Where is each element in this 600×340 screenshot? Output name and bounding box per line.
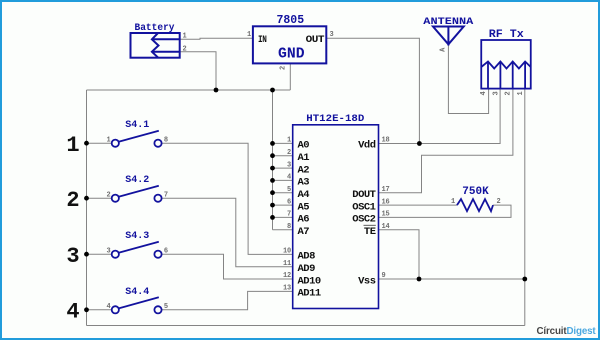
junction: Vdd node [417, 141, 422, 146]
pin name OSC2 [352, 214, 375, 226]
wire: Vdd pin18 to RF Tx pin 3 [379, 89, 501, 144]
svg-text:Battery: Battery [135, 23, 175, 34]
regulator U2 7805 box [253, 26, 326, 63]
wire: RF Tx pin 1 down to bottom ground rail [524, 89, 526, 326]
svg-text:TE: TE [364, 226, 376, 238]
svg-text:A6: A6 [298, 214, 310, 226]
svg-text:5: 5 [164, 303, 168, 311]
svg-text:AD8: AD8 [298, 251, 316, 263]
svg-text:14: 14 [382, 223, 390, 231]
junction: bus at A5 [270, 203, 275, 208]
svg-text:9: 9 [382, 272, 386, 280]
pin name AD10 [298, 275, 321, 287]
svg-text:IN: IN [258, 34, 267, 46]
RF Tx pin 4 number [480, 91, 488, 95]
antenna pin A label [440, 47, 448, 52]
svg-text:8: 8 [287, 223, 291, 231]
RF Tx label [489, 29, 524, 41]
svg-text:7805: 7805 [276, 14, 304, 27]
svg-text:6: 6 [164, 247, 168, 255]
svg-text:3: 3 [287, 161, 291, 169]
svg-text:1: 1 [106, 136, 110, 144]
svg-text:A0: A0 [298, 140, 310, 152]
switch S4.1 [112, 131, 162, 147]
wire: resistor pin 2 to OSC2 pin15 [379, 205, 512, 217]
svg-text:A5: A5 [298, 201, 310, 213]
svg-text:4: 4 [287, 174, 291, 182]
switch S4.4 label [125, 287, 149, 298]
pin name AD8 [298, 251, 316, 263]
svg-text:A1: A1 [298, 152, 310, 164]
pin name A3 [298, 177, 310, 189]
S4.3 pin 6 number [164, 247, 168, 255]
wire: S4.3 to AD10 pin12 [162, 254, 293, 279]
resistor pin 2 number [497, 198, 501, 206]
antenna label [423, 16, 474, 28]
battery label [135, 23, 175, 34]
switch S4.3 label [125, 231, 149, 242]
IC pin 7 number [287, 211, 291, 219]
pin name OSC1 [352, 201, 375, 213]
junction: left rail S4.4 [84, 307, 89, 312]
junction: TE to Vss line [417, 277, 422, 282]
pin name A7 [298, 226, 310, 238]
svg-text:GND: GND [278, 46, 305, 62]
svg-text:DOUT: DOUT [352, 189, 375, 201]
switch S4.2 label [125, 175, 149, 186]
wire: OSC1 pin16 to resistor pin 1 [379, 204, 458, 206]
svg-text:HT12E-18D: HT12E-18D [306, 113, 364, 125]
svg-text:750K: 750K [462, 186, 489, 198]
svg-text:S4.2: S4.2 [125, 175, 149, 186]
svg-text:S4.3: S4.3 [125, 231, 149, 242]
IC pin 15 number [382, 211, 390, 219]
svg-text:OSC1: OSC1 [352, 201, 375, 213]
svg-text:A2: A2 [298, 164, 310, 176]
svg-text:7: 7 [287, 211, 291, 219]
svg-text:17: 17 [382, 186, 390, 194]
svg-text:2: 2 [280, 66, 288, 70]
svg-text:8: 8 [164, 136, 168, 144]
wire: main ground horizontal y=90 [87, 89, 291, 91]
svg-text:A3: A3 [298, 177, 310, 189]
IC pin 16 number [382, 198, 390, 206]
IC pin 1 number [287, 137, 291, 145]
HT12E-18D label [306, 113, 364, 125]
resistor pin 1 number [451, 198, 455, 206]
node number 3 [66, 244, 79, 269]
IC pin 2 number [287, 149, 291, 157]
svg-text:11: 11 [283, 260, 291, 268]
svg-text:12: 12 [283, 272, 291, 280]
junction: bus at A2 [270, 166, 275, 171]
junction: bus at A0 [270, 141, 275, 146]
wire: Vss pin9 to RF Tx pin1 vertical [379, 278, 525, 280]
antenna ANT1 symbol [433, 27, 464, 46]
IC pin 14 number [382, 223, 390, 231]
svg-text:S4.1: S4.1 [125, 120, 149, 131]
junction: ground line to address bus [270, 88, 275, 93]
pin name Vss [358, 275, 376, 287]
7805 GND pin name [278, 46, 305, 62]
junction: left rail S4.3 [84, 252, 89, 257]
node number 1 [66, 133, 79, 158]
svg-text:OSC2: OSC2 [352, 214, 375, 226]
wire: S4.1 to AD8 pin10 [162, 143, 293, 254]
RF Tx pin 2 number [505, 91, 513, 95]
svg-text:1: 1 [451, 198, 455, 206]
junction: Vss line to RF pin1 vertical [522, 277, 527, 282]
7805 pin 2 number [280, 66, 288, 70]
svg-text:3: 3 [106, 247, 110, 255]
svg-text:18: 18 [382, 137, 390, 145]
svg-text:2: 2 [66, 188, 79, 213]
IC pin 13 number [283, 285, 291, 293]
svg-text:4: 4 [480, 91, 488, 95]
wire: left ground rail vertical [86, 90, 88, 326]
junction: left rail S4.1 [84, 141, 89, 146]
wire: antenna lead to RF Tx pin 4 [448, 46, 488, 114]
IC pin 12 number [283, 272, 291, 280]
pin name AD11 [298, 288, 321, 300]
S4.1 pin 1 number [106, 136, 110, 144]
wire: bottom ground rail [87, 325, 525, 327]
IC pin 3 number [287, 161, 291, 169]
S4.3 pin 3 number [106, 247, 110, 255]
CircuitDigest logo [537, 326, 597, 337]
junction: bus at A6 [270, 215, 275, 220]
svg-text:2: 2 [106, 191, 110, 199]
svg-text:7: 7 [164, 191, 168, 199]
encoder IC U1 HT12E-18D box [293, 125, 379, 309]
wire: DOUT pin17 to RF Tx pin 2 [379, 89, 513, 193]
RF Tx pin 1 number [517, 91, 525, 95]
svg-text:1: 1 [517, 91, 525, 95]
7805 pin 1 number [247, 31, 251, 39]
svg-text:A7: A7 [298, 226, 310, 238]
svg-text:15: 15 [382, 211, 390, 219]
pin name DOUT [352, 189, 375, 201]
battery BAT1 symbol [131, 33, 180, 58]
switch S4.1 label [125, 120, 149, 131]
wire: S4.3 left [87, 253, 112, 255]
svg-text:1: 1 [287, 137, 291, 145]
pin name A1 [298, 152, 310, 164]
junction: battery minus on ground line [214, 88, 219, 93]
IC pin 4 number [287, 174, 291, 182]
S4.4 pin 5 number [164, 303, 168, 311]
svg-text:AD10: AD10 [298, 275, 321, 287]
IC pin 18 number [382, 137, 390, 145]
wire: S4.2 left [87, 197, 112, 199]
battery pin 1 number [183, 32, 187, 40]
wire: S4.4 to AD11 pin13 [162, 291, 293, 309]
pin name TE with overline [364, 225, 376, 238]
svg-text:OUT: OUT [306, 34, 325, 46]
wire: TE pin14 to ground [379, 230, 420, 279]
wire: battery plus to 7805 IN [180, 38, 253, 39]
wire: battery minus down to ground rail [180, 52, 216, 90]
7805 label [276, 14, 304, 27]
wire: S4.4 left [87, 309, 112, 311]
svg-text:2: 2 [287, 149, 291, 157]
svg-text:S4.4: S4.4 [125, 287, 149, 298]
RF transmitter module RF Tx [481, 40, 531, 89]
svg-text:1: 1 [66, 133, 79, 158]
node number 4 [66, 299, 79, 324]
svg-text:4: 4 [66, 299, 79, 324]
wire: S4.2 to AD9 pin11 [162, 198, 293, 267]
S4.4 pin 4 number [106, 303, 110, 311]
svg-text:2: 2 [505, 91, 513, 95]
pin name A2 [298, 164, 310, 176]
S4.2 pin 2 number [106, 191, 110, 199]
wire: 7805 OUT to Vdd node [326, 38, 419, 143]
svg-text:10: 10 [283, 248, 291, 256]
IC pin 11 number [283, 260, 291, 268]
svg-text:6: 6 [287, 198, 291, 206]
svg-text:RF Tx: RF Tx [489, 29, 524, 41]
svg-text:5: 5 [287, 186, 291, 194]
pin name A0 [298, 140, 310, 152]
pin name AD9 [298, 263, 316, 275]
junction: left rail S4.2 [84, 196, 89, 201]
resistor R1 750K zigzag [457, 199, 493, 211]
junction: bus at A1 [270, 153, 275, 158]
svg-text:3: 3 [492, 91, 500, 95]
pin name A6 [298, 214, 310, 226]
svg-text:4: 4 [106, 303, 110, 311]
svg-text:ANTENNA: ANTENNA [423, 16, 474, 28]
IC pin 10 number [283, 248, 291, 256]
7805 pin 3 number [330, 31, 334, 39]
switch S4.3 [112, 242, 162, 258]
wire: address bus vertical A0-A7 [272, 90, 274, 230]
IC pin 5 number [287, 186, 291, 194]
svg-text:AD9: AD9 [298, 263, 316, 275]
svg-text:Vss: Vss [358, 275, 376, 287]
pin name A5 [298, 201, 310, 213]
S4.2 pin 7 number [164, 191, 168, 199]
switch S4.2 [112, 186, 162, 202]
svg-text:13: 13 [283, 285, 291, 293]
svg-text:CírcuitDigest: CírcuitDigest [537, 326, 597, 337]
S4.1 pin 8 number [164, 136, 168, 144]
resistor value label 750K [462, 186, 489, 198]
svg-text:2: 2 [183, 45, 187, 53]
svg-text:16: 16 [382, 198, 390, 206]
svg-text:1: 1 [183, 32, 187, 40]
svg-text:3: 3 [66, 244, 79, 269]
switch S4.4 [112, 297, 162, 313]
svg-text:1: 1 [247, 31, 251, 39]
wire: S4.1 left [87, 142, 112, 144]
RF Tx pin 3 number [492, 91, 500, 95]
pin name Vdd [358, 140, 376, 152]
pin name A4 [298, 189, 310, 201]
svg-text:3: 3 [330, 31, 334, 39]
battery pin 2 number [183, 45, 187, 53]
svg-text:A4: A4 [298, 189, 310, 201]
svg-text:Vdd: Vdd [358, 140, 376, 152]
7805 IN pin name [258, 34, 267, 46]
junction: bus at A3 [270, 178, 275, 183]
IC pin 17 number [382, 186, 390, 194]
junction: bus at A4 [270, 190, 275, 195]
wire: stubs bus to pins A0-A7 [273, 143, 293, 229]
wire: 7805 GND pin 2 leg [289, 63, 291, 90]
7805 OUT pin name [306, 34, 325, 46]
IC pin 6 number [287, 198, 291, 206]
svg-text:2: 2 [497, 198, 501, 206]
IC pin 8 number [287, 223, 291, 231]
node number 2 [66, 188, 79, 213]
IC pin 9 number [382, 272, 386, 280]
svg-text:AD11: AD11 [298, 288, 321, 300]
